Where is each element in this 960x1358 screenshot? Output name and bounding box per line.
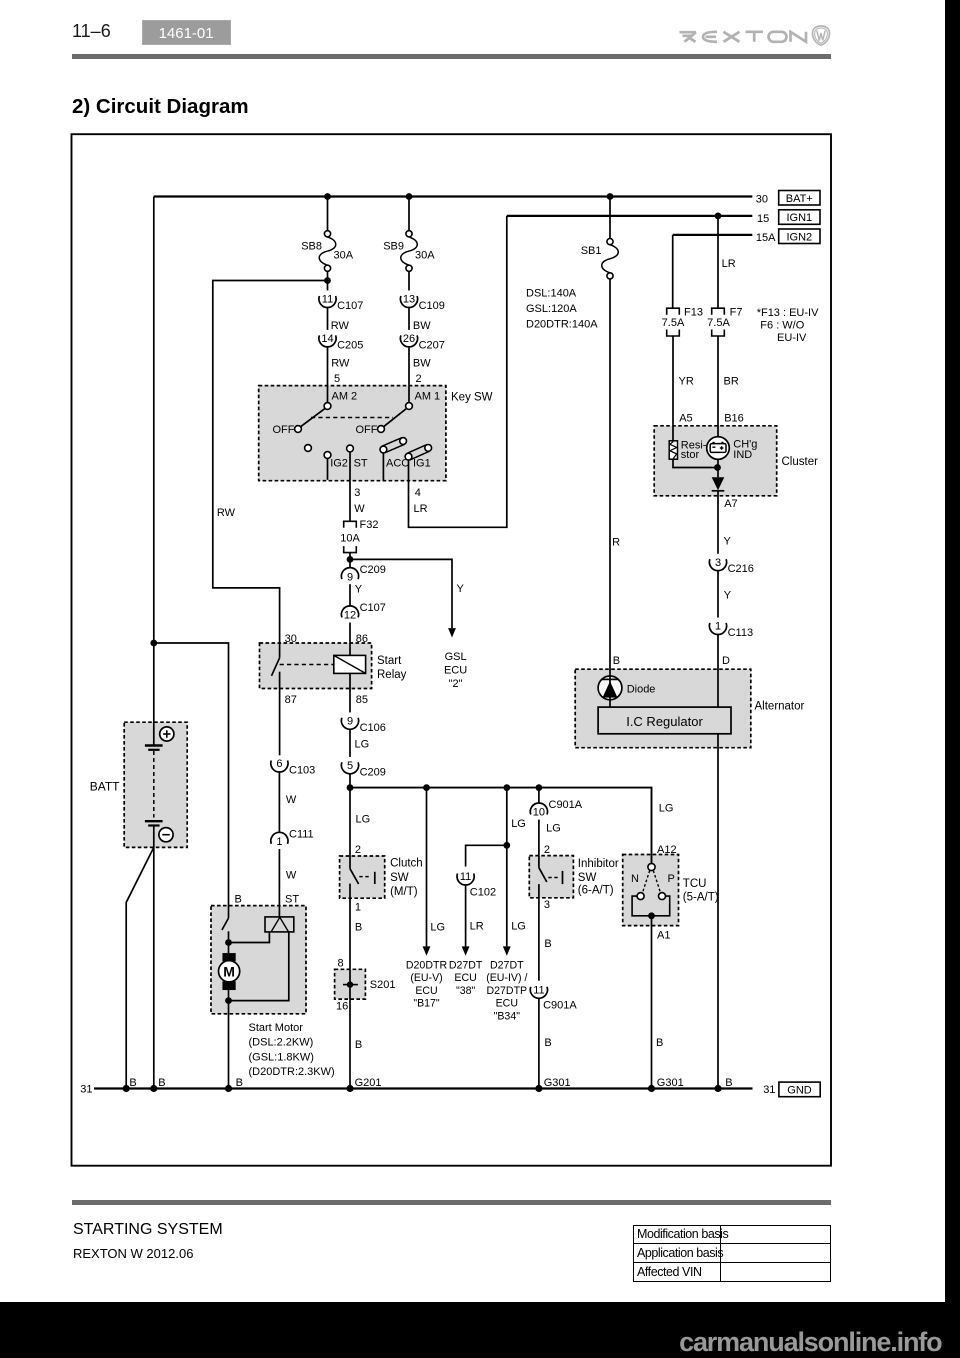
- svg-text:BATT: BATT: [90, 780, 120, 794]
- svg-text:15: 15: [757, 213, 769, 225]
- svg-text:Y: Y: [457, 583, 465, 595]
- svg-text:YR: YR: [679, 376, 694, 388]
- svg-text:2: 2: [355, 844, 361, 856]
- svg-text:BAT+: BAT+: [786, 193, 813, 205]
- svg-text:(6-A/T): (6-A/T): [578, 885, 614, 897]
- svg-text:B: B: [544, 938, 551, 950]
- svg-text:D27DT: D27DT: [449, 960, 483, 972]
- svg-text:A1: A1: [657, 930, 670, 942]
- svg-text:11: 11: [533, 984, 544, 996]
- svg-text:26: 26: [403, 333, 415, 345]
- svg-text:ST: ST: [285, 894, 299, 906]
- svg-text:Y: Y: [355, 584, 363, 596]
- svg-text:D27DTP: D27DTP: [486, 985, 527, 997]
- svg-text:C901A: C901A: [543, 1000, 577, 1012]
- svg-text:F13: F13: [684, 307, 703, 319]
- svg-text:30: 30: [756, 194, 768, 206]
- svg-text:IG2: IG2: [330, 457, 348, 469]
- svg-text:10A: 10A: [340, 533, 360, 545]
- svg-text:C102: C102: [470, 886, 496, 898]
- svg-text:9: 9: [347, 571, 353, 583]
- svg-text:SW: SW: [578, 872, 597, 884]
- svg-text:8: 8: [338, 958, 344, 970]
- svg-text:C901A: C901A: [549, 799, 583, 811]
- svg-text:RW: RW: [331, 320, 350, 332]
- svg-text:S201: S201: [370, 979, 396, 991]
- svg-text:13: 13: [403, 294, 415, 306]
- svg-text:GND: GND: [787, 1084, 812, 1096]
- svg-text:11: 11: [322, 294, 333, 306]
- svg-text:D27DT: D27DT: [490, 960, 524, 972]
- svg-text:1: 1: [355, 902, 361, 914]
- svg-text:C113: C113: [728, 627, 753, 639]
- svg-text:P: P: [668, 873, 675, 885]
- svg-text:31: 31: [763, 1084, 775, 1096]
- svg-text:AM 1: AM 1: [415, 391, 441, 403]
- svg-text:IG1: IG1: [413, 457, 431, 469]
- svg-text:SB8: SB8: [301, 241, 322, 253]
- svg-text:C107: C107: [360, 602, 386, 614]
- svg-text:Start: Start: [377, 655, 402, 667]
- svg-text:30: 30: [285, 633, 297, 645]
- svg-text:30A: 30A: [334, 249, 354, 261]
- svg-text:G301: G301: [544, 1077, 571, 1089]
- svg-text:C103: C103: [289, 765, 315, 777]
- svg-text:BR: BR: [724, 376, 739, 388]
- svg-text:ECU: ECU: [415, 985, 437, 997]
- svg-text:R: R: [612, 537, 620, 549]
- svg-text:LR: LR: [470, 921, 484, 933]
- svg-text:(EU-V): (EU-V): [410, 972, 442, 984]
- svg-text:7.5A: 7.5A: [662, 317, 685, 329]
- svg-text:D20DTR:140A: D20DTR:140A: [526, 318, 598, 330]
- svg-text:B: B: [236, 1077, 243, 1089]
- svg-text:Relay: Relay: [377, 669, 407, 681]
- svg-text:A5: A5: [679, 413, 692, 425]
- svg-text:3: 3: [354, 487, 360, 499]
- svg-text:B16: B16: [724, 413, 744, 425]
- svg-text:C106: C106: [360, 722, 386, 734]
- svg-text:Alternator: Alternator: [755, 701, 805, 713]
- svg-text:IGN2: IGN2: [786, 231, 812, 243]
- svg-text:"38": "38": [456, 985, 476, 997]
- svg-text:B: B: [129, 1077, 136, 1089]
- svg-text:C209: C209: [360, 766, 386, 778]
- svg-text:9: 9: [347, 715, 353, 727]
- svg-text:D: D: [722, 655, 730, 667]
- svg-text:B: B: [613, 655, 620, 667]
- svg-text:G201: G201: [355, 1077, 382, 1089]
- svg-text:16: 16: [336, 1001, 348, 1013]
- svg-text:LG: LG: [356, 814, 371, 826]
- svg-text:LG: LG: [511, 921, 526, 933]
- svg-text:ACC: ACC: [386, 457, 409, 469]
- svg-text:BW: BW: [413, 357, 431, 369]
- svg-text:AM 2: AM 2: [332, 391, 358, 403]
- svg-text:Cluster: Cluster: [782, 456, 819, 468]
- svg-text:ECU: ECU: [496, 998, 518, 1010]
- svg-text:C109: C109: [419, 300, 445, 312]
- svg-text:Y: Y: [724, 536, 732, 548]
- svg-text:SB1: SB1: [581, 245, 602, 257]
- svg-text:LG: LG: [355, 739, 370, 751]
- svg-text:F6 : W/O: F6 : W/O: [760, 319, 804, 331]
- svg-text:B: B: [355, 921, 362, 933]
- svg-text:30A: 30A: [415, 249, 435, 261]
- svg-text:7.5A: 7.5A: [707, 317, 730, 329]
- svg-text:87: 87: [285, 694, 297, 706]
- svg-text:I.C Regulator: I.C Regulator: [626, 714, 703, 729]
- svg-text:W: W: [286, 869, 297, 881]
- svg-text:IGN1: IGN1: [786, 212, 812, 224]
- svg-text:2: 2: [416, 373, 422, 385]
- svg-text:OFF: OFF: [356, 424, 378, 436]
- svg-text:G301: G301: [657, 1077, 684, 1089]
- svg-text:B: B: [544, 1037, 551, 1049]
- svg-text:SB9: SB9: [383, 241, 404, 253]
- svg-text:"B34": "B34": [494, 1010, 521, 1022]
- svg-text:F7: F7: [730, 307, 743, 319]
- svg-text:31: 31: [80, 1084, 92, 1096]
- svg-text:(5-A/T): (5-A/T): [683, 892, 719, 904]
- svg-text:GSL: GSL: [445, 651, 467, 663]
- svg-text:2: 2: [544, 844, 550, 856]
- svg-text:B: B: [235, 894, 242, 906]
- svg-text:4: 4: [415, 487, 421, 499]
- svg-text:*F13 : EU-IV: *F13 : EU-IV: [757, 307, 819, 319]
- svg-text:Clutch: Clutch: [390, 858, 423, 870]
- svg-text:(DSL:2.2KW): (DSL:2.2KW): [249, 1037, 314, 1049]
- svg-text:6: 6: [276, 758, 282, 770]
- svg-text:LG: LG: [659, 803, 674, 815]
- svg-text:1: 1: [715, 621, 721, 633]
- svg-text:BW: BW: [413, 320, 431, 332]
- svg-text:B: B: [656, 1037, 663, 1049]
- svg-text:14: 14: [321, 333, 333, 345]
- svg-text:(M/T): (M/T): [390, 886, 418, 898]
- svg-text:"B17": "B17": [413, 998, 440, 1010]
- svg-text:Diode: Diode: [627, 684, 656, 696]
- svg-text:(EU-IV) /: (EU-IV) /: [486, 972, 527, 984]
- svg-text:Key SW: Key SW: [451, 392, 493, 404]
- svg-text:LG: LG: [511, 818, 526, 830]
- svg-text:LR: LR: [722, 258, 736, 270]
- svg-text:11: 11: [460, 871, 471, 883]
- svg-text:Start Motor: Start Motor: [249, 1022, 304, 1034]
- svg-text:(GSL:1.8KW): (GSL:1.8KW): [249, 1051, 314, 1063]
- svg-text:ST: ST: [354, 457, 368, 469]
- svg-text:C207: C207: [419, 339, 445, 351]
- svg-text:5: 5: [347, 760, 353, 772]
- svg-text:C111: C111: [289, 829, 314, 841]
- svg-text:LR: LR: [414, 503, 428, 515]
- svg-text:SW: SW: [390, 872, 409, 884]
- svg-text:C209: C209: [360, 564, 386, 576]
- svg-text:ECU: ECU: [454, 972, 476, 984]
- svg-text:Inhibitor: Inhibitor: [578, 858, 619, 870]
- svg-text:C205: C205: [337, 339, 363, 351]
- svg-text:"2": "2": [449, 678, 463, 690]
- svg-text:EU-IV: EU-IV: [777, 332, 807, 344]
- svg-text:12: 12: [344, 610, 356, 622]
- svg-text:TCU: TCU: [683, 878, 707, 890]
- svg-text:86: 86: [356, 633, 368, 645]
- svg-text:15A: 15A: [756, 232, 776, 244]
- svg-text:DSL:140A: DSL:140A: [526, 287, 577, 299]
- svg-text:A7: A7: [724, 498, 737, 510]
- svg-text:RW: RW: [217, 507, 236, 519]
- svg-text:OFF: OFF: [273, 424, 295, 436]
- svg-text:RW: RW: [331, 357, 350, 369]
- svg-text:3: 3: [715, 557, 721, 569]
- svg-text:C216: C216: [728, 563, 754, 575]
- svg-text:Y: Y: [724, 589, 732, 601]
- svg-text:(D20DTR:2.3KW): (D20DTR:2.3KW): [249, 1066, 335, 1078]
- svg-text:C107: C107: [337, 300, 363, 312]
- svg-text:B: B: [355, 1039, 362, 1051]
- svg-text:ECU: ECU: [444, 665, 467, 677]
- svg-text:W: W: [286, 794, 297, 806]
- svg-text:M: M: [223, 963, 235, 979]
- svg-text:B: B: [725, 1077, 732, 1089]
- svg-text:5: 5: [334, 373, 340, 385]
- svg-text:stor: stor: [681, 449, 700, 461]
- svg-text:F32: F32: [360, 519, 379, 531]
- svg-text:IND: IND: [733, 449, 752, 461]
- svg-text:D20DTR: D20DTR: [406, 960, 448, 972]
- svg-text:10: 10: [533, 807, 545, 819]
- svg-text:3: 3: [544, 899, 550, 911]
- svg-text:GSL:120A: GSL:120A: [526, 303, 577, 315]
- svg-text:B: B: [158, 1077, 165, 1089]
- svg-text:N: N: [631, 873, 639, 885]
- svg-text:LG: LG: [430, 922, 445, 934]
- svg-text:85: 85: [356, 694, 368, 706]
- svg-text:LG: LG: [546, 823, 561, 835]
- svg-text:W: W: [354, 503, 365, 515]
- svg-text:1: 1: [276, 836, 282, 848]
- svg-text:A12: A12: [657, 844, 677, 856]
